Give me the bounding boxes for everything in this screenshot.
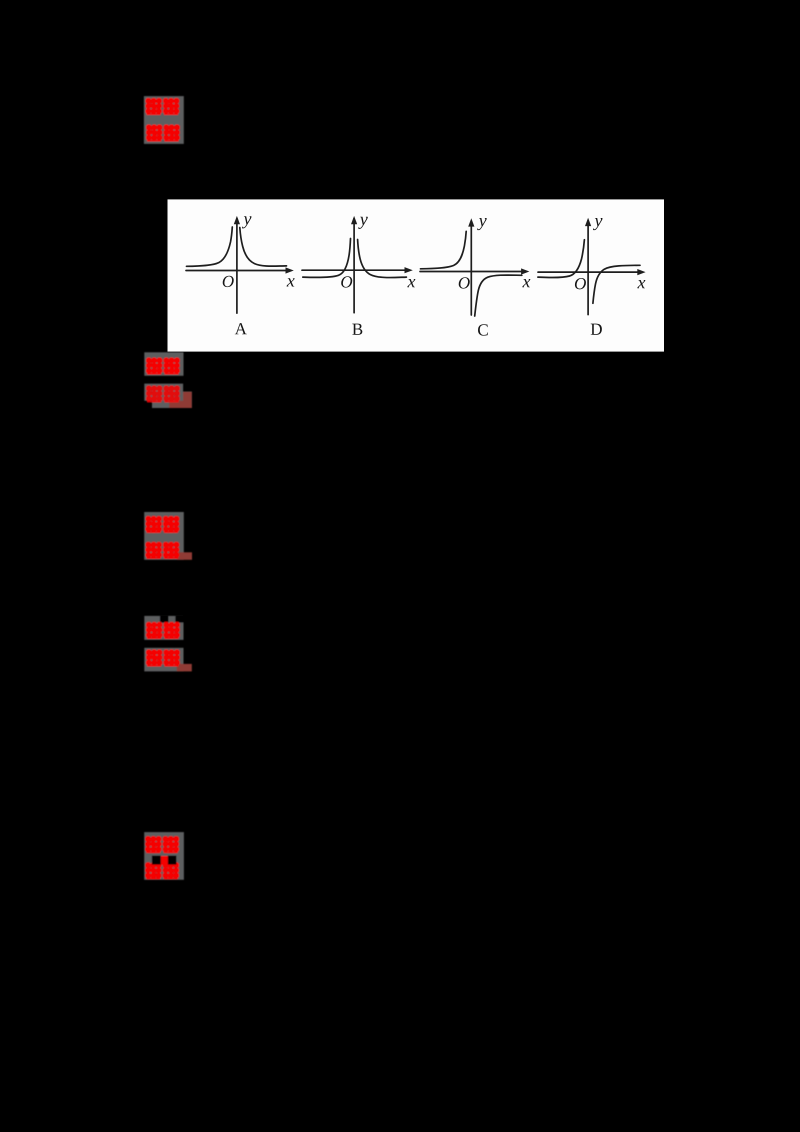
graph D origin label O [575,278,586,289]
graph A x-axis [186,270,287,272]
stamp marker 3 shadow grey box [152,392,192,409]
graph C curve left branch [421,231,467,268]
choice label D [591,324,602,335]
choice label B [352,324,362,335]
stamp marker 7 red text row 2 [145,862,161,879]
graph B x-axis [302,269,406,271]
stamp marker 6 maroon corner [177,664,192,672]
stamp marker 7 black square right [168,856,177,865]
graph C x-axis [420,271,523,273]
graph D axis label y [593,218,603,230]
stamp marker 4 grey box [144,512,184,560]
stamp marker 7 grey box [144,832,184,880]
choice label A [235,323,247,334]
graph A axis label x [287,278,295,286]
graph D axis label x [637,280,645,288]
graph B curve right branch [358,240,407,278]
stamp marker 6 grey box [144,648,183,672]
graph B y arrowhead [351,216,357,224]
graph D x arrowhead [637,269,645,275]
graph B axis label x [407,279,415,287]
graph A y-axis [236,219,238,314]
graph A curve right branch [240,228,287,267]
stamp marker 7 red mid bump [161,856,168,865]
stamp marker 1 red text row 1 [146,98,162,115]
graph C y arrowhead [468,218,474,226]
graph A y arrowhead [234,216,240,224]
graph C origin label O [459,277,470,288]
stamp marker 1 red text row 2 [146,125,162,142]
graph D curve right branch [593,265,640,303]
graph C x arrowhead [521,268,529,274]
stamp marker 5 grey box [144,616,183,640]
graph D curve left branch [538,240,585,278]
stamp marker 3 maroon shadow [169,392,192,408]
stamp marker 3 red text [146,386,180,403]
choice label C [478,324,488,335]
graph D x-axis [538,271,639,273]
stamp marker 4 red text row 1 [146,516,162,533]
graph C axis label y [477,218,487,230]
graph D y arrowhead [585,218,591,226]
graph A x arrowhead [286,267,294,273]
graph C axis label x [522,279,530,287]
stamp marker 3 grey box [144,384,183,401]
stamp marker 2 grey box [144,352,183,376]
graph A origin label O [223,276,234,287]
stamp marker 2 red text [146,358,162,375]
stamp marker 5 top notch left [160,616,169,623]
stamp marker 4 maroon corner [177,552,192,560]
stamp marker 6 red text [146,650,162,667]
stamp marker 5 top notch right [175,616,183,623]
graph B curve left branch [303,239,351,278]
graph A curve left branch [187,227,233,266]
graph B axis label y [358,217,368,229]
stamp marker 4 red text row 2 [146,542,162,559]
stamp marker 7 red text row 1 [145,836,161,853]
graph B origin label O [341,276,352,287]
graph A axis label y [242,216,252,228]
graph B y-axis [353,219,355,313]
graph D y-axis [587,221,589,315]
stamp marker 7 black square left [152,856,161,865]
stamp marker 1 grey box [144,96,184,144]
white graph panel [168,199,665,351]
graph C curve right branch [475,275,522,316]
graph B x arrowhead [405,267,413,273]
graph C y-axis [470,221,472,315]
stamp marker 5 red text [146,622,162,639]
